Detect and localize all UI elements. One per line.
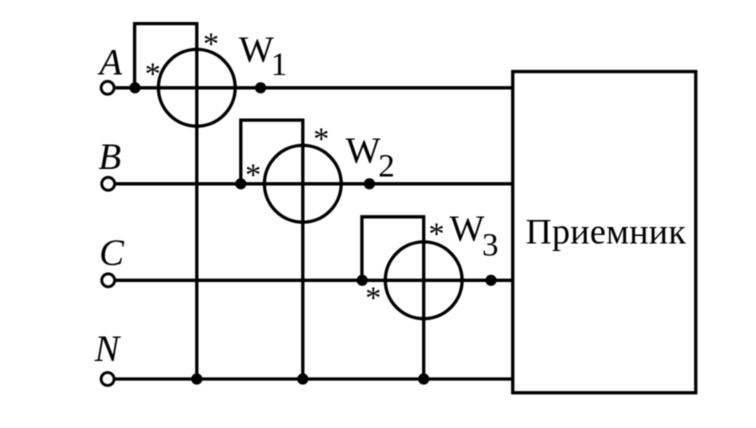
svg-text:*: * bbox=[203, 26, 219, 62]
svg-text:W: W bbox=[450, 209, 485, 250]
svg-text:*: * bbox=[313, 120, 329, 156]
svg-text:W: W bbox=[346, 131, 381, 172]
svg-text:Приемник: Приемник bbox=[526, 212, 687, 252]
svg-text:*: * bbox=[145, 55, 161, 91]
svg-text:*: * bbox=[245, 156, 261, 192]
svg-text:C: C bbox=[99, 233, 125, 274]
svg-text:A: A bbox=[97, 43, 123, 84]
svg-text:2: 2 bbox=[378, 149, 395, 185]
svg-text:N: N bbox=[94, 329, 122, 370]
svg-text:W: W bbox=[239, 30, 274, 71]
svg-text:*: * bbox=[429, 216, 445, 252]
svg-text:*: * bbox=[365, 279, 381, 315]
svg-text:1: 1 bbox=[271, 47, 288, 83]
svg-text:B: B bbox=[99, 137, 122, 178]
svg-text:3: 3 bbox=[482, 227, 499, 263]
